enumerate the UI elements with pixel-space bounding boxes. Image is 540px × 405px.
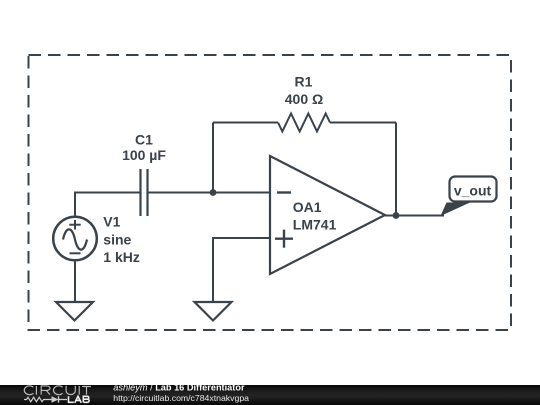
wire: feedback top to R1 left: [213, 122, 278, 124]
wire: feedback right vertical down to output: [395, 123, 397, 216]
CircuitLab logo text CIRCUIT: [24, 386, 91, 395]
svg-text:400 Ω: 400 Ω: [285, 91, 323, 107]
label R1 value: [285, 74, 323, 108]
svg-text:v_out: v_out: [454, 183, 492, 199]
wire: feedback left vertical: [212, 123, 214, 193]
schematic boundary: [29, 55, 512, 330]
svg-text:OA1: OA1: [293, 199, 322, 215]
svg-text:http://circuitlab.com/c784xtna: http://circuitlab.com/c784xtnakvgpa: [113, 393, 249, 403]
label C1 value: [122, 132, 166, 163]
node junction at output: [393, 212, 400, 219]
CircuitLab logo text LAB: [69, 396, 90, 403]
voltage source V1: [53, 217, 97, 261]
svg-text:100 µF: 100 µF: [122, 147, 166, 163]
footer title line: [113, 383, 245, 393]
label OA1 value: [293, 199, 337, 232]
wire: V1 top to C1 left: [75, 193, 141, 218]
svg-text:ashleym / Lab 16 Differentiato: ashleym / Lab 16 Differentiator: [113, 383, 245, 393]
wire: R1 right to feedback right vertical: [330, 122, 396, 124]
ground (op-amp): [195, 302, 232, 321]
op-amp OA1: [270, 156, 385, 274]
ground (V1): [56, 302, 93, 321]
svg-text:V1: V1: [103, 214, 120, 230]
node v_out flag: [441, 177, 497, 217]
CircuitLab logo resistor-diode symbol: [24, 396, 67, 402]
footer bar: [0, 385, 540, 405]
capacitor C1: [141, 169, 148, 216]
footer url line: [113, 393, 249, 403]
wire: V1 bottom to ground: [74, 260, 76, 302]
label V1 value: [103, 214, 140, 265]
svg-text:LM741: LM741: [293, 217, 337, 233]
resistor R1: [278, 114, 330, 132]
svg-text:R1: R1: [295, 74, 313, 90]
wire: C1 right to op-amp inverting input: [148, 192, 271, 194]
node junction at C1 / feedback: [210, 189, 217, 196]
svg-text:C1: C1: [135, 132, 153, 148]
svg-text:sine: sine: [103, 231, 131, 247]
wire: non-inverting input to ground: [213, 238, 270, 302]
wire: op-amp output to v_out flag: [385, 215, 444, 217]
svg-text:1 kHz: 1 kHz: [103, 249, 140, 265]
